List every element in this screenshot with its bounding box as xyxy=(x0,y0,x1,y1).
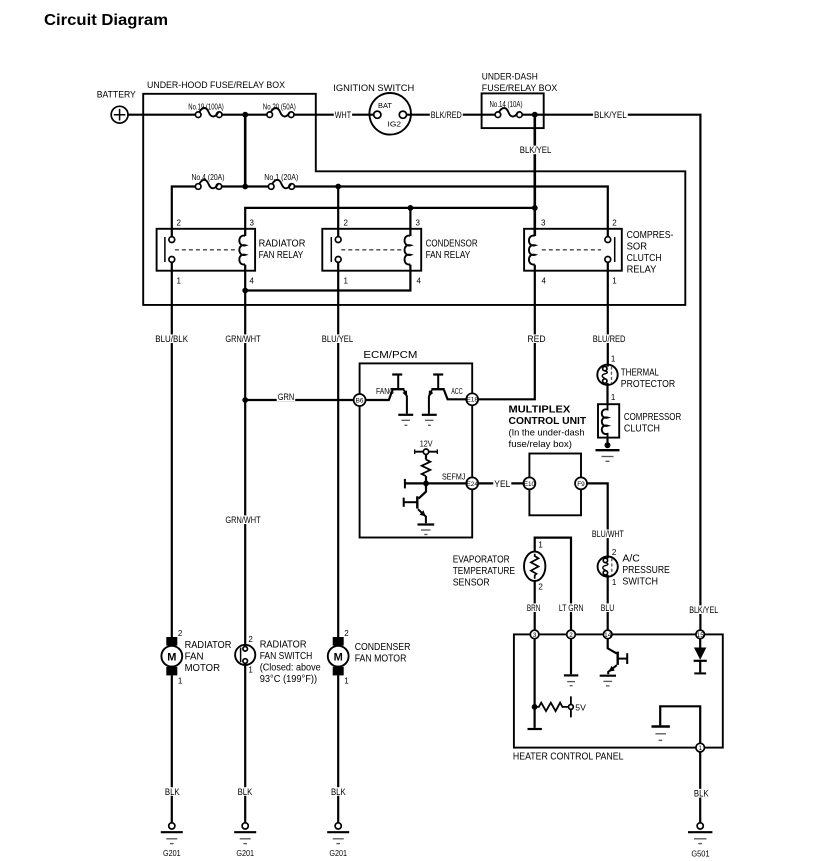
svg-text:RADIATOR: RADIATOR xyxy=(185,640,232,651)
transistor Q3 (SEFMJ driver) xyxy=(404,483,435,534)
compressor clutch relay xyxy=(524,219,673,286)
label BLU/BLK xyxy=(154,334,189,344)
label BLK/YEL lower xyxy=(688,605,719,615)
ground G201 (fan switch) xyxy=(234,823,256,858)
wire color labels above heater panel xyxy=(526,603,542,613)
svg-text:E24: E24 xyxy=(467,481,479,488)
svg-text:No.20 (50A): No.20 (50A) xyxy=(263,102,296,111)
wire terminal 1 to G501 (BLK) xyxy=(699,752,701,823)
ground (heater t2) xyxy=(564,675,578,685)
radiator fan motor M1 xyxy=(161,629,231,686)
svg-text:FAN RELAY: FAN RELAY xyxy=(426,250,471,261)
svg-text:(Closed: above: (Closed: above xyxy=(260,663,321,674)
svg-text:SENSOR: SENSOR xyxy=(453,577,490,588)
svg-text:MOTOR: MOTOR xyxy=(185,663,220,674)
svg-text:UNDER-HOOD FUSE/RELAY BOX: UNDER-HOOD FUSE/RELAY BOX xyxy=(147,80,285,90)
wire thermal protector to compressor clutch xyxy=(606,383,608,404)
wire B6 to FANC transistor base xyxy=(366,390,393,400)
wire radiator relay pin1 down to radiator fan motor (BLU/BLK) xyxy=(171,262,173,637)
wire fan switch to G201 (BLK) xyxy=(244,663,246,823)
svg-text:RADIATOR: RADIATOR xyxy=(259,239,306,250)
terminal E18 xyxy=(451,387,478,405)
svg-text:WHT: WHT xyxy=(335,110,352,120)
svg-text:2: 2 xyxy=(612,219,617,228)
svg-text:RADIATOR: RADIATOR xyxy=(260,640,307,651)
svg-text:IGNITION SWITCH: IGNITION SWITCH xyxy=(333,83,414,93)
junction dot SEFMJ node xyxy=(423,481,429,487)
terminal 2 xyxy=(567,630,576,639)
fuse No.4 (20A) xyxy=(192,173,225,189)
svg-text:4: 4 xyxy=(417,277,422,286)
svg-text:1: 1 xyxy=(344,676,349,685)
svg-text:G201: G201 xyxy=(236,848,254,858)
svg-text:12V: 12V xyxy=(420,439,433,449)
svg-text:BLK/YEL: BLK/YEL xyxy=(520,145,552,155)
wire condenser relay pin1 down to condenser fan motor (BLU/YEL) xyxy=(337,262,339,637)
svg-text:FAN: FAN xyxy=(185,652,204,663)
5V supply node xyxy=(569,696,587,717)
svg-text:3: 3 xyxy=(533,632,537,639)
svg-text:No.19 (100A): No.19 (100A) xyxy=(188,102,224,111)
thermal protector xyxy=(597,355,675,390)
diode D1 (terminal 15) xyxy=(694,639,707,674)
under-hood fuse/relay box xyxy=(143,80,685,305)
svg-text:2: 2 xyxy=(612,548,617,557)
svg-text:ECM/PCM: ECM/PCM xyxy=(363,350,417,361)
junction dot main line x245 xyxy=(242,112,248,118)
svg-text:BLK: BLK xyxy=(165,787,180,797)
svg-text:G201: G201 xyxy=(163,848,181,858)
ignition switch xyxy=(333,83,414,135)
terminal 14 xyxy=(603,630,612,639)
compressor clutch xyxy=(598,404,681,437)
svg-text:BAT: BAT xyxy=(378,101,392,110)
junction dot in under-dash box xyxy=(532,112,538,118)
svg-text:M: M xyxy=(334,651,343,663)
terminal 3 xyxy=(530,630,539,639)
svg-text:1: 1 xyxy=(344,277,349,286)
svg-text:GRN/WHT: GRN/WHT xyxy=(225,334,261,344)
terminal E10 xyxy=(523,477,535,489)
wire 20A fuse rail (line1) xyxy=(172,187,608,237)
wire GRN/WHT column down to radiator fan switch xyxy=(244,291,246,647)
svg-text:BRN: BRN xyxy=(527,603,541,613)
terminal 1 xyxy=(696,743,705,752)
ground (heater internal) xyxy=(652,727,670,741)
label BLK/YEL vertical xyxy=(519,145,553,155)
terminal 15 xyxy=(696,630,705,639)
fuse No.20 (50A) xyxy=(263,102,296,117)
svg-text:4: 4 xyxy=(542,277,547,286)
svg-text:1: 1 xyxy=(612,578,617,587)
svg-text:PROTECTOR: PROTECTOR xyxy=(621,379,675,390)
label GRN/WHT upper xyxy=(224,334,261,344)
fuse No.14 (10A) xyxy=(490,100,523,117)
svg-text:YEL: YEL xyxy=(494,479,510,489)
label YEL xyxy=(493,479,511,489)
wire terminal 2 internal to ground xyxy=(570,639,572,675)
svg-text:2: 2 xyxy=(177,219,182,228)
wire radiator relay pin4 / condenser pin4 tie xyxy=(245,265,410,291)
terminal B6 xyxy=(354,387,395,406)
wire pressure switch to heater panel 14 (BLU) xyxy=(607,575,609,630)
heater control panel box xyxy=(513,634,723,762)
wire compressor relay pin4 to ECM E18 (RED) xyxy=(478,265,535,400)
ground G201 (motor2) xyxy=(327,823,349,858)
svg-text:BLK: BLK xyxy=(694,789,709,799)
svg-text:fuse/relay box): fuse/relay box) xyxy=(509,438,573,449)
wire compressor relay pin1 down to thermal protector (BLU/RED) xyxy=(607,262,609,366)
svg-text:RELAY: RELAY xyxy=(627,264,657,275)
fuse No.19 (100A) xyxy=(188,102,224,117)
svg-text:TEMPERATURE: TEMPERATURE xyxy=(453,566,516,577)
A/C pressure switch xyxy=(598,548,671,587)
svg-text:BLU/WHT: BLU/WHT xyxy=(592,529,625,539)
radiator fan switch xyxy=(235,635,321,685)
svg-text:2: 2 xyxy=(248,635,253,644)
label BLK (fan switch) xyxy=(237,787,254,797)
svg-text:G201: G201 xyxy=(329,848,347,858)
svg-text:BLK: BLK xyxy=(331,787,346,797)
svg-text:1: 1 xyxy=(178,676,183,685)
wire condenser relay pin2 branch xyxy=(337,187,339,237)
svg-text:CONDENSOR: CONDENSOR xyxy=(426,239,478,250)
transistor Q1 FANC xyxy=(391,375,413,426)
svg-text:BLK/YEL: BLK/YEL xyxy=(689,605,718,615)
ECM/PCM box xyxy=(360,350,473,538)
terminal-3 internal stub end xyxy=(528,728,542,730)
svg-text:A/C: A/C xyxy=(622,554,640,565)
resistor R1 (12V pull-up) xyxy=(422,454,431,483)
wire motor2 to G201 (BLK) xyxy=(337,675,339,822)
svg-text:FAN MOTOR: FAN MOTOR xyxy=(355,654,407,665)
label GRN xyxy=(277,392,296,402)
svg-text:BLK: BLK xyxy=(238,787,253,797)
12V supply node xyxy=(415,439,438,455)
svg-text:3: 3 xyxy=(250,219,255,228)
svg-text:CONDENSER: CONDENSER xyxy=(355,642,411,653)
svg-text:BLK/RED: BLK/RED xyxy=(431,110,462,120)
label BLU/RED xyxy=(592,334,627,344)
battery B1 xyxy=(97,89,136,123)
svg-text:5V: 5V xyxy=(575,702,586,712)
svg-text:GRN/WHT: GRN/WHT xyxy=(225,515,261,525)
condenser fan relay xyxy=(322,219,477,286)
svg-text:COMPRES-: COMPRES- xyxy=(627,230,674,241)
svg-text:CONTROL UNIT: CONTROL UNIT xyxy=(509,416,587,427)
multiplex control unit box xyxy=(509,404,587,515)
junction dot rail x338 (condenser relay pin2 branch) xyxy=(335,184,341,190)
svg-text:FUSE/RELAY BOX: FUSE/RELAY BOX xyxy=(482,83,558,93)
wire motor1 to G201 (BLK) xyxy=(171,675,173,822)
wire BLK/YEL drop from under-dash box xyxy=(533,118,536,237)
svg-text:SEFMJ: SEFMJ xyxy=(442,473,465,482)
wire coil feed rail (line2 BLK/YEL to relay coils) xyxy=(245,208,535,236)
svg-text:1: 1 xyxy=(538,541,543,550)
ground G501 xyxy=(688,823,712,859)
svg-text:COMPRESSOR: COMPRESSOR xyxy=(624,412,681,423)
transistor Q4 (heater panel) xyxy=(608,639,628,675)
junction dot GRN branch xyxy=(242,397,248,403)
fuse No.1 (20A) xyxy=(264,173,298,189)
under-dash fuse/relay box xyxy=(482,71,558,128)
svg-text:2: 2 xyxy=(344,219,349,228)
wire ignition to under-dash box, BLK/RED xyxy=(407,114,496,116)
svg-text:B6: B6 xyxy=(356,397,364,404)
svg-text:2: 2 xyxy=(178,629,183,638)
svg-text:G501: G501 xyxy=(691,848,709,858)
svg-text:Circuit Diagram: Circuit Diagram xyxy=(44,12,168,29)
svg-text:UNDER-DASH: UNDER-DASH xyxy=(482,71,538,81)
junction dot rail x245 xyxy=(242,184,248,190)
label BLK (G501) xyxy=(693,789,710,799)
label RED xyxy=(526,334,546,344)
svg-text:SOR: SOR xyxy=(627,242,647,253)
wire YEL E24 to E10 xyxy=(478,482,523,484)
svg-text:4: 4 xyxy=(250,277,255,286)
svg-text:PRESSURE: PRESSURE xyxy=(622,565,670,576)
svg-text:2: 2 xyxy=(344,629,349,638)
label BLK/YEL top right xyxy=(593,110,628,120)
label WHT xyxy=(334,110,352,120)
evaporator temperature sensor xyxy=(453,538,571,631)
svg-text:BLK/YEL: BLK/YEL xyxy=(594,110,627,120)
svg-text:F9: F9 xyxy=(577,481,585,488)
label LT GRN xyxy=(558,603,585,613)
svg-text:E18: E18 xyxy=(467,397,479,404)
svg-text:FAN SWITCH: FAN SWITCH xyxy=(260,651,313,662)
svg-text:1: 1 xyxy=(698,745,702,752)
svg-text:No.1 (20A): No.1 (20A) xyxy=(264,173,298,182)
svg-text:CLUTCH: CLUTCH xyxy=(624,423,660,434)
svg-text:BATTERY: BATTERY xyxy=(97,89,136,99)
svg-text:EVAPORATOR: EVAPORATOR xyxy=(453,554,510,565)
condenser fan motor M2 xyxy=(328,629,411,686)
junction dot t3 xyxy=(532,704,538,710)
label BLU xyxy=(600,603,615,613)
radiator fan relay xyxy=(157,219,306,286)
wire fuse19 to fuse20, junction xyxy=(222,114,267,116)
label BLK/RED xyxy=(430,110,463,120)
svg-text:M: M xyxy=(167,651,176,663)
transistor Q2 ACC xyxy=(422,375,445,426)
label BLK (motor1) xyxy=(164,787,181,797)
wire fuse20 to ignition switch, WHT xyxy=(294,114,374,116)
ground (compressor clutch) xyxy=(596,438,620,462)
svg-text:BLU/RED: BLU/RED xyxy=(593,334,626,344)
svg-text:MULTIPLEX: MULTIPLEX xyxy=(509,404,571,415)
wire fuse14 right to far-right drop BLK/YEL xyxy=(522,115,700,630)
svg-text:1: 1 xyxy=(611,393,616,402)
svg-text:No.14 (10A): No.14 (10A) xyxy=(490,100,523,109)
svg-text:IG2: IG2 xyxy=(388,119,402,128)
svg-text:15: 15 xyxy=(697,632,705,639)
wire terminal 3 internal xyxy=(533,639,535,728)
junction dot x245 y290 xyxy=(242,288,248,294)
resistor R2 (5V pull-up) xyxy=(535,703,569,711)
wire F9 to A/C pressure switch (BLU/WHT) xyxy=(587,483,608,558)
svg-text:1: 1 xyxy=(248,665,253,674)
svg-text:CLUTCH: CLUTCH xyxy=(627,253,662,264)
svg-text:GRN: GRN xyxy=(278,392,295,402)
svg-text:2: 2 xyxy=(569,632,573,639)
svg-text:3: 3 xyxy=(541,219,546,228)
terminal E24 xyxy=(466,477,478,489)
label BLK (motor2) xyxy=(330,787,347,797)
svg-text:E10: E10 xyxy=(524,481,536,488)
label BLU/WHT xyxy=(591,529,625,539)
svg-text:RED: RED xyxy=(527,334,545,344)
wire GRN branch to ECM B6 xyxy=(245,399,353,401)
svg-text:BLU/YEL: BLU/YEL xyxy=(322,334,353,344)
terminal F9 xyxy=(575,477,587,489)
svg-text:1: 1 xyxy=(611,355,616,364)
svg-text:3: 3 xyxy=(416,219,421,228)
ground (heater t14) xyxy=(600,676,616,686)
svg-text:1: 1 xyxy=(612,277,617,286)
label GRN/WHT lower xyxy=(224,515,261,525)
wire E18 to ACC transistor base xyxy=(444,390,466,399)
wire battery-line drop to 20A fuse rail xyxy=(244,115,247,187)
svg-text:LT GRN: LT GRN xyxy=(559,603,584,613)
label BLU/YEL xyxy=(321,334,354,344)
wire battery to fuse No.19 xyxy=(128,114,195,116)
svg-text:2: 2 xyxy=(538,583,543,592)
wire heater internal ground elbow to terminal 1 xyxy=(660,706,700,743)
junction dot line2 x534.8 xyxy=(532,205,538,211)
svg-text:HEATER CONTROL PANEL: HEATER CONTROL PANEL xyxy=(513,751,624,762)
wire SEFMJ node: left stub and to E24 xyxy=(405,473,467,489)
svg-text:BLU/BLK: BLU/BLK xyxy=(155,334,188,344)
svg-text:FAN RELAY: FAN RELAY xyxy=(259,250,304,261)
svg-text:ACC: ACC xyxy=(451,387,463,396)
junction dot line2 x410 xyxy=(408,205,414,211)
svg-text:SWITCH: SWITCH xyxy=(622,577,658,588)
svg-text:BLU: BLU xyxy=(601,603,614,613)
ground G201 (motor1) xyxy=(161,823,183,858)
svg-text:(In the under-dash: (In the under-dash xyxy=(509,427,585,438)
svg-text:THERMAL: THERMAL xyxy=(621,367,660,378)
svg-text:93°C (199°F)): 93°C (199°F)) xyxy=(260,674,317,685)
svg-text:No.4 (20A): No.4 (20A) xyxy=(192,173,225,182)
svg-text:1: 1 xyxy=(177,277,182,286)
svg-text:14: 14 xyxy=(604,632,612,639)
